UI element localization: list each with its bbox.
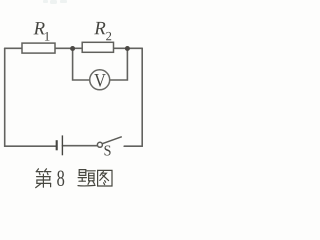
wire: battery to switch bbox=[63, 145, 98, 147]
battery bbox=[57, 135, 63, 155]
resistor R1 bbox=[22, 43, 55, 53]
wire: voltmeter right branch from node B bbox=[110, 49, 128, 81]
wire: bottom-left to battery bbox=[5, 145, 57, 147]
switch S bbox=[97, 137, 121, 148]
node B (junction dot right of R2) bbox=[125, 46, 130, 51]
char 第 bbox=[36, 169, 51, 188]
resistor R2 bbox=[82, 42, 113, 52]
char 图 bbox=[98, 170, 112, 186]
char 题 bbox=[78, 170, 95, 186]
wire: R2 to node B and to top-right corner bbox=[114, 47, 143, 49]
label R2 bbox=[94, 22, 105, 34]
voltmeter V bbox=[90, 70, 110, 90]
faint cropped-text smudge at top edge bbox=[43, 0, 67, 4]
wire: R1 to node A bbox=[55, 47, 82, 49]
caption: 第 8 题图 bbox=[36, 169, 112, 188]
node A (junction dot left of R2) bbox=[70, 46, 75, 51]
label R1 bbox=[33, 22, 44, 34]
wire: voltmeter left branch from node A bbox=[73, 49, 90, 81]
char 8 bbox=[57, 171, 64, 187]
label S bbox=[105, 145, 111, 155]
wire: top-left from left corner to R1 bbox=[5, 47, 22, 49]
wire: right vertical bbox=[141, 48, 143, 146]
wire: left vertical bbox=[4, 48, 6, 146]
wire: bottom-right corner to switch blade side bbox=[124, 145, 142, 147]
